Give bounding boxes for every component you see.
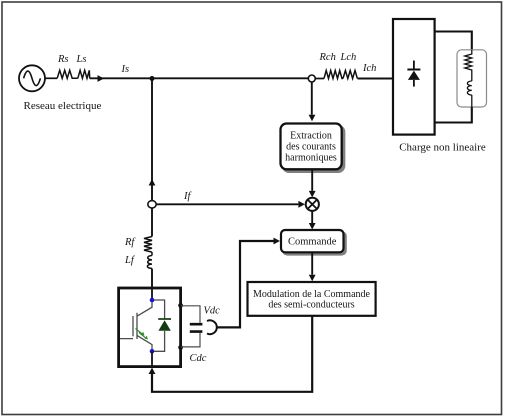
svg-text:Rch: Rch xyxy=(319,52,336,63)
svg-text:Commande: Commande xyxy=(288,237,337,248)
svg-text:Ich: Ich xyxy=(362,63,376,74)
svg-text:harmoniques: harmoniques xyxy=(285,153,337,164)
svg-text:des semi-conducteurs: des semi-conducteurs xyxy=(268,299,354,310)
svg-text:Modulation de la Commande: Modulation de la Commande xyxy=(253,289,370,300)
svg-text:Rs: Rs xyxy=(57,54,69,65)
svg-text:Vdc: Vdc xyxy=(204,306,221,317)
svg-text:Is: Is xyxy=(121,64,130,75)
svg-text:des courants: des courants xyxy=(286,142,336,153)
svg-text:Cdc: Cdc xyxy=(190,353,207,364)
svg-text:Charge non lineaire: Charge non lineaire xyxy=(399,142,486,154)
svg-text:Reseau electrique: Reseau electrique xyxy=(24,100,102,112)
svg-text:Extraction: Extraction xyxy=(290,131,332,142)
svg-text:Lch: Lch xyxy=(340,52,357,63)
svg-text:Ls: Ls xyxy=(76,54,87,65)
